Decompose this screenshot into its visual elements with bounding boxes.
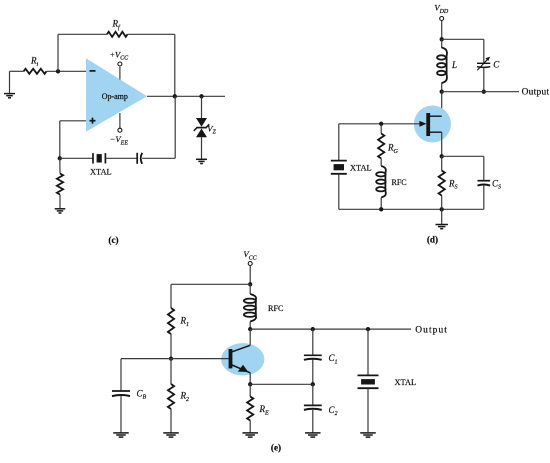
svg-text:RG: RG (387, 143, 399, 155)
wire R1 upper (170, 284, 172, 308)
wire resistor to ground (circuit c) (59, 195, 61, 209)
ground (circuit d) (436, 225, 448, 229)
ground below RE (242, 433, 258, 437)
wire +VCC stem (119, 67, 121, 80)
wire -VEE stem (119, 113, 121, 128)
node C bottom junction (482, 90, 486, 94)
svg-text:C1: C1 (329, 353, 338, 365)
wire RS lower (441, 196, 443, 210)
label XTAL (circuit e) (395, 378, 417, 387)
inductor RFC (circuit e) (244, 294, 256, 322)
svg-text:R1: R1 (180, 316, 190, 328)
ground below C2 (305, 433, 321, 437)
wire C2 lower (312, 410, 314, 433)
wire non-inverting input (60, 120, 86, 122)
wire C1 upper (312, 329, 314, 355)
wire drain vertical (441, 92, 443, 117)
wire XTAL upper (circuit e) (367, 329, 369, 375)
JFET gate arrow (339, 121, 427, 127)
label C (493, 59, 500, 69)
node zener/output junction (199, 94, 203, 98)
label VDD (434, 3, 449, 15)
node A (inverting input junction) (56, 69, 60, 73)
ground G1 (input, circuit c) (4, 94, 15, 98)
crystal XTAL (circuit d) (331, 161, 347, 174)
terminal VCC (circuit e) (248, 262, 252, 266)
terminal VDD (440, 17, 444, 21)
crystal XTAL (circuit e) (358, 375, 379, 388)
BJT emitter lead with arrow (232, 365, 250, 373)
wire R2 upper (170, 359, 172, 384)
wire feedback top left segment (58, 33, 107, 35)
svg-text:R2: R2 (180, 391, 190, 403)
wire CB branch down (120, 359, 122, 391)
resistor Ri (24, 69, 47, 74)
svg-text:(e): (e) (271, 443, 281, 453)
label R1 (180, 316, 190, 328)
label -VEE (110, 134, 129, 146)
wire xtal line right vertical (174, 96, 176, 158)
svg-text:XTAL: XTAL (90, 168, 112, 177)
label C1 (329, 353, 338, 365)
label VCC (circuit e) (243, 249, 257, 261)
ground below resistor (circuit c) (55, 209, 66, 213)
node source junction (440, 154, 444, 158)
node C1/output junction (311, 327, 315, 331)
wire bottom rail (circuit d) (339, 208, 484, 210)
wire output (circuit d) (442, 91, 519, 93)
svg-text:RS: RS (448, 178, 458, 190)
wire XTAL lower (circuit e) (367, 389, 369, 433)
svg-text:−VEE: −VEE (110, 134, 129, 146)
svg-text:Rf: Rf (112, 19, 122, 31)
wire C1 lower (312, 360, 314, 385)
JFET drain lead (430, 115, 442, 117)
capacitor CB (112, 391, 130, 396)
wire CS upper (483, 156, 485, 180)
wire source vertical (441, 132, 443, 156)
crystal XTAL (circuit c) (93, 153, 105, 163)
label C2 (329, 405, 338, 417)
ground below XTAL (circuit e) (360, 433, 376, 437)
node source/bottom rail junction (440, 207, 444, 211)
wire base line left to CB (121, 358, 171, 360)
wire feedback right vertical (174, 34, 176, 96)
BJT highlight ellipse (221, 343, 264, 375)
label (c) (108, 235, 118, 245)
label VZ (207, 123, 216, 135)
wire base line right (171, 358, 229, 360)
wire rail to R1 (171, 283, 250, 285)
node emitter junction (248, 382, 252, 386)
resistor Rf (107, 32, 128, 37)
zener diode pair VZ (194, 118, 209, 137)
node VCC rail junction (circuit e) (248, 282, 252, 286)
JFET highlight circle (414, 106, 451, 143)
wire RFC to bottom rail (380, 198, 382, 210)
svg-text:CB: CB (137, 388, 147, 400)
label RE (259, 404, 270, 416)
wire output (circuit e) (250, 328, 411, 330)
wire C branch lower (483, 68, 485, 92)
wire RFC to collector node (249, 322, 251, 330)
resistor bottom (circuit c) (57, 174, 63, 195)
BJT collector lead (232, 345, 250, 352)
svg-text:C: C (493, 59, 500, 69)
terminal +VCC (118, 62, 122, 66)
wire node B down (59, 158, 61, 173)
label XTAL (circuit d) (350, 163, 372, 172)
wire top to C branch (442, 38, 484, 40)
wire xtal branch upper (circuit d) (338, 124, 340, 160)
resistor RG (378, 134, 384, 159)
wire CB to ground (120, 396, 122, 433)
wire emitter line to C1C2 (250, 383, 313, 385)
label Op-amp (102, 92, 128, 101)
wire ground to Ri (10, 70, 24, 72)
wire zener bottom (201, 137, 203, 159)
node collector/output junction (248, 327, 252, 331)
svg-text:Ri: Ri (30, 56, 39, 68)
op-amp non-inverting input plus sign (90, 118, 96, 124)
JFET source lead (430, 131, 442, 133)
label RG (387, 143, 399, 155)
wire RG to RFC (380, 159, 382, 167)
label CB (137, 388, 147, 400)
capacitor series (circuit c) (137, 153, 142, 164)
label CS (492, 178, 501, 190)
wire Ri to op-amp inverting input (47, 70, 87, 72)
label (d) (427, 235, 438, 245)
label Rf (112, 19, 122, 31)
node gate/RG junction (379, 122, 383, 126)
wire L top lead (441, 39, 443, 48)
svg-text:RFC: RFC (392, 178, 407, 187)
inductor RFC (circuit d) (376, 166, 386, 198)
wire op-amp output (147, 95, 225, 97)
wire emitter down (249, 373, 251, 385)
wire L bottom lead (441, 83, 443, 92)
svg-text:RE: RE (259, 404, 270, 416)
label +VCC (109, 50, 129, 61)
label Ri (30, 56, 39, 68)
svg-text:(d): (d) (427, 235, 438, 245)
svg-text:XTAL: XTAL (350, 163, 372, 172)
node C1/C2 junction (311, 382, 315, 386)
wire xtal branch lower (circuit d) (338, 174, 340, 209)
wire RE upper (249, 384, 251, 396)
wire C branch upper (483, 39, 485, 62)
wire RS upper (441, 156, 443, 170)
svg-text:(c): (c) (108, 235, 118, 245)
wire VDD stem (441, 21, 443, 40)
resistor RE (247, 397, 253, 421)
wire VCC junction to RFC (249, 284, 251, 294)
BJT Q1 base bar (229, 349, 233, 368)
node drain/output junction (440, 90, 444, 94)
resistor R1 (168, 308, 174, 334)
wire R1 lower (170, 334, 172, 359)
label RFC (circuit e) (268, 304, 284, 313)
label RFC (circuit d) (392, 178, 407, 187)
wire input left vertical (9, 71, 11, 93)
capacitor C (variable) plates (477, 63, 490, 67)
svg-text:C2: C2 (329, 405, 338, 417)
wire ground stem (circuit d) (441, 209, 443, 224)
capacitor CS (478, 181, 491, 186)
label XTAL (circuit c) (90, 168, 112, 177)
ground below zener (196, 159, 207, 163)
ground below R2 (163, 433, 179, 437)
node B (+input / xtal line junction) (58, 156, 62, 160)
node base junction (169, 356, 173, 360)
node RFC/bottom rail junction (379, 207, 383, 211)
wire xtal to capacitor (105, 157, 137, 159)
wire source junction to CS branch (442, 155, 484, 157)
label RS (448, 178, 458, 190)
label Output (circuit e) (415, 325, 448, 335)
node XTAL/output junction (366, 327, 370, 331)
wire xtal line left (60, 157, 93, 159)
wire zener top (201, 96, 203, 118)
node feedback/output junction (173, 94, 177, 98)
label L (451, 60, 457, 70)
resistor RS (439, 171, 445, 196)
svg-text:Output: Output (522, 87, 550, 97)
svg-text:XTAL: XTAL (395, 378, 417, 387)
wire gate to RG (380, 124, 382, 134)
wire R2 lower (170, 409, 172, 433)
op-amp inverting input minus sign (90, 70, 96, 72)
svg-text:CS: CS (492, 178, 501, 190)
svg-text:VCC: VCC (243, 249, 257, 261)
svg-text:Output: Output (415, 325, 448, 335)
wire RE lower (249, 421, 251, 433)
wire capacitor to feedback (142, 157, 175, 159)
inductor L (437, 48, 447, 84)
terminal -VEE (118, 128, 122, 132)
label (e) (271, 443, 281, 453)
JFET Q1 channel bar (426, 113, 430, 136)
capacitor C1 (304, 355, 322, 360)
label Output (circuit d) (522, 87, 550, 97)
ground below CB (113, 433, 129, 437)
op-amp U1 triangle (86, 58, 147, 131)
wire collector up (249, 329, 251, 345)
wire feedback top right segment (128, 33, 175, 35)
wire CS lower (483, 185, 485, 209)
svg-text:VDD: VDD (434, 3, 449, 15)
resistor R2 (168, 384, 174, 409)
svg-text:VZ: VZ (207, 123, 216, 135)
wire VCC stem (circuit e) (249, 266, 251, 285)
label R2 (180, 391, 190, 403)
wire C2 upper (312, 384, 314, 405)
arrow of variable capacitor C (477, 57, 490, 71)
svg-text:+VCC: +VCC (109, 50, 129, 61)
capacitor C2 (304, 405, 322, 410)
wire + input down (59, 121, 61, 159)
wire node A up to feedback (57, 34, 59, 71)
node VDD rail junction (440, 37, 444, 41)
svg-text:L: L (451, 60, 457, 70)
svg-text:Op-amp: Op-amp (102, 92, 128, 101)
svg-text:RFC: RFC (268, 304, 284, 313)
